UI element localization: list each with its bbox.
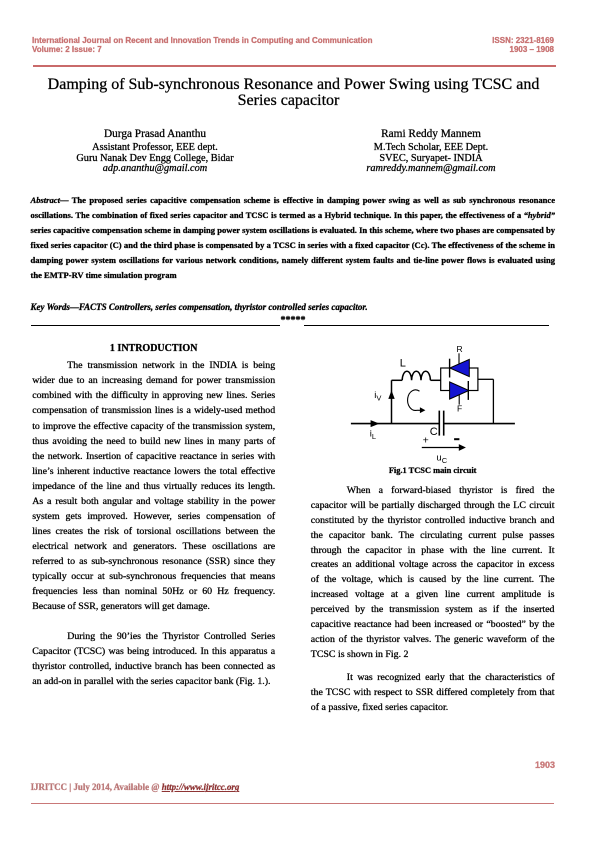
left column paragraph 2 <box>32 629 275 689</box>
figure caption <box>311 466 555 475</box>
svg-text:iL: iL <box>370 428 376 441</box>
circulating current arrow <box>408 390 420 411</box>
author left affiliation <box>35 143 275 175</box>
abstract <box>31 193 556 283</box>
wire left branch vertical <box>391 380 393 423</box>
header journal info left <box>32 36 452 54</box>
svg-text:L: L <box>400 358 406 370</box>
wire main line left segment <box>351 423 439 425</box>
capacitor C plates <box>438 411 440 436</box>
svg-text:C: C <box>430 426 438 438</box>
left column paragraph 1 <box>32 358 275 614</box>
footer page number <box>455 761 555 770</box>
svg-text:R: R <box>457 344 463 354</box>
wire top horizontal to coil <box>392 379 403 381</box>
key words <box>31 302 556 312</box>
thyristor F (bottom, pointing right) <box>450 381 469 405</box>
svg-text:iV: iV <box>374 390 381 403</box>
divider asterisks <box>268 316 318 326</box>
wire main line right segment <box>444 423 515 425</box>
inductor L coil <box>402 371 430 380</box>
header ISSN right <box>354 36 554 54</box>
right column paragraph 2 <box>311 671 555 716</box>
arrow iL on main line <box>371 420 380 427</box>
header red rule <box>33 65 556 67</box>
wire coil to box <box>430 379 440 381</box>
wire right branch vertical <box>492 379 494 423</box>
section heading <box>32 344 275 354</box>
label minus <box>454 438 459 440</box>
author right name <box>311 128 551 140</box>
svg-text:uC: uC <box>436 453 447 465</box>
right column paragraph 1 <box>311 484 555 663</box>
arrow uC voltage <box>422 447 459 449</box>
wire box to right branch <box>478 378 494 380</box>
thyristor R (top, pointing left) <box>450 353 470 377</box>
svg-text:F: F <box>457 403 462 413</box>
divider rule left <box>31 325 280 326</box>
thyristor module box <box>441 368 478 391</box>
footer red rule <box>31 803 554 805</box>
arrow iV on left branch <box>388 390 394 399</box>
paper title <box>28 77 559 108</box>
divider rule right <box>304 325 549 326</box>
footer journal line <box>31 782 240 792</box>
author left name <box>35 128 275 140</box>
author right affiliation <box>311 143 551 175</box>
figure 1: TCSC circuit <box>340 344 525 466</box>
svg-text:+: + <box>423 435 429 447</box>
